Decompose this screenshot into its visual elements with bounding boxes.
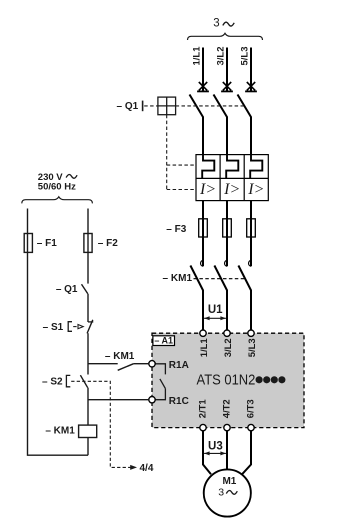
- svg-text:– KM1: – KM1: [105, 351, 135, 362]
- svg-text:2/T1: 2/T1: [198, 399, 209, 419]
- svg-text:3/L2: 3/L2: [215, 46, 226, 65]
- svg-text:50/60 Hz: 50/60 Hz: [38, 182, 76, 193]
- svg-text:– S1: – S1: [43, 322, 64, 333]
- svg-text:6/T3: 6/T3: [246, 399, 257, 418]
- svg-text:R1A: R1A: [169, 360, 189, 371]
- svg-text:U1: U1: [208, 304, 223, 316]
- svg-text:– Q1: – Q1: [56, 284, 78, 295]
- svg-text:3/L2: 3/L2: [223, 338, 234, 357]
- svg-text:– Q1: – Q1: [117, 101, 139, 112]
- svg-text:I>: I>: [223, 181, 240, 198]
- svg-text:3: 3: [218, 486, 224, 498]
- svg-text:5/L3: 5/L3: [247, 338, 258, 357]
- svg-text:M1: M1: [222, 476, 236, 487]
- svg-text:– F2: – F2: [98, 238, 118, 249]
- svg-text:ATS 01N2: ATS 01N2: [197, 371, 256, 388]
- svg-text:– S2: – S2: [42, 376, 63, 387]
- svg-text:– KM1: – KM1: [45, 425, 75, 436]
- svg-text:5/L3: 5/L3: [239, 46, 250, 65]
- svg-text:U3: U3: [208, 440, 223, 452]
- svg-text:1/L1: 1/L1: [191, 46, 202, 66]
- svg-text:R1C: R1C: [169, 396, 189, 407]
- svg-text:I>: I>: [199, 181, 216, 198]
- svg-text:1/L1: 1/L1: [199, 338, 210, 358]
- svg-text:– F3: – F3: [166, 224, 186, 235]
- svg-text:– KM1: – KM1: [163, 273, 193, 284]
- svg-text:3: 3: [213, 18, 219, 30]
- svg-text:– F1: – F1: [37, 238, 57, 249]
- svg-text:I>: I>: [247, 181, 264, 198]
- svg-text:– A1: – A1: [154, 336, 173, 346]
- svg-text:4/T2: 4/T2: [222, 399, 233, 418]
- svg-text:4/4: 4/4: [140, 463, 154, 474]
